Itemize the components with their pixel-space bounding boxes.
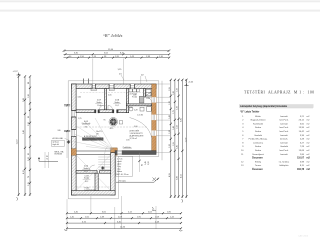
svg-text:11,10: 11,10 xyxy=(17,140,19,145)
top dimension chain line 2 xyxy=(64,53,171,56)
headroom dashed line upper xyxy=(77,126,148,128)
large headroom arc xyxy=(130,118,153,140)
lower section wall H2 xyxy=(76,171,97,174)
svg-text:BET. 40, 28 cm: BET. 40, 28 cm xyxy=(117,174,130,176)
left wall tan pillar xyxy=(71,149,76,156)
svg-text:76: 76 xyxy=(28,176,30,178)
svg-text:tégla fal: tégla fal xyxy=(53,143,60,146)
svg-text:10,2: 10,2 xyxy=(115,105,119,107)
svg-text:“B” Lakás Tetőtér: “B” Lakás Tetőtér xyxy=(240,111,259,114)
svg-text:95: 95 xyxy=(104,120,106,122)
svg-text:1,55: 1,55 xyxy=(169,87,171,91)
svg-text:Fürdő: Fürdő xyxy=(132,97,137,99)
room label 1.05 bath xyxy=(132,95,137,99)
svg-text:Szoba: Szoba xyxy=(255,131,262,133)
svg-text:14,42: 14,42 xyxy=(299,131,305,133)
svg-text:laminalt: laminalt xyxy=(280,115,288,118)
svg-text:lam.Park.: lam.Park. xyxy=(279,150,288,152)
svg-text:4,55: 4,55 xyxy=(169,173,171,177)
right chain line 4 xyxy=(181,79,184,203)
svg-text:1,15 85: 1,15 85 xyxy=(137,114,143,116)
svg-text:1,43: 1,43 xyxy=(169,115,171,119)
level marker cross at left wall xyxy=(67,140,70,143)
svg-text:82: 82 xyxy=(28,153,30,155)
svg-text:+3,05: +3,05 xyxy=(188,82,194,84)
svg-text:f.á. fürkész: f.á. fürkész xyxy=(279,161,289,163)
svg-text:lam.Park.: lam.Park. xyxy=(279,120,288,122)
svg-text:Fürdő+WC+Mosog.: Fürdő+WC+Mosog. xyxy=(249,139,268,141)
svg-text:lam.Park.: lam.Park. xyxy=(279,131,288,133)
svg-text:A 196 M2 BONT.: A 196 M2 BONT. xyxy=(84,135,98,138)
svg-text:Ø15: Ø15 xyxy=(110,128,113,130)
scan band second xyxy=(0,10,320,12)
bottom ext line 4 xyxy=(155,206,157,229)
window label D2 above wall xyxy=(141,75,147,83)
right chain line 5 (overall) xyxy=(185,79,187,198)
svg-text:ker.burk.: ker.burk. xyxy=(280,139,289,141)
svg-text:95: 95 xyxy=(142,164,144,166)
headroom dashed line lower room xyxy=(77,186,111,188)
shower corner fixture in bath xyxy=(145,92,151,96)
void cross diagonals lower-left room xyxy=(76,155,110,190)
svg-text:1,55: 1,55 xyxy=(173,142,175,146)
svg-text:Közlekedő: Közlekedő xyxy=(253,123,264,125)
window sill mark left 2 xyxy=(64,130,70,132)
room label 1.07 szoba (top-left room) xyxy=(95,100,103,108)
svg-text:Összesen: Összesen xyxy=(252,168,263,171)
table rows xyxy=(241,115,310,156)
window in left wall 1 xyxy=(72,111,77,118)
bath partition H3 xyxy=(126,104,151,106)
bottom exterior wall of lower-left section xyxy=(72,191,116,195)
svg-text:1,20: 1,20 xyxy=(177,88,179,92)
step wall right of lower section xyxy=(111,153,116,195)
left exterior wall xyxy=(72,84,77,195)
svg-text:3,62: 3,62 xyxy=(78,97,82,99)
svg-text:+2,97: +2,97 xyxy=(13,71,19,73)
extension line short at x140.8 xyxy=(140,76,142,84)
door swing H1 gap xyxy=(99,105,104,110)
lower section wall V4 xyxy=(95,173,98,190)
right chain line 1 xyxy=(169,79,172,198)
svg-text:1,90: 1,90 xyxy=(126,140,130,142)
door swing right wall 1 xyxy=(146,97,151,102)
window in top wall 2 xyxy=(109,84,114,89)
svg-text:2,30: 2,30 xyxy=(177,106,179,110)
window in top wall 1 xyxy=(92,84,95,89)
svg-text:Szoba: Szoba xyxy=(255,150,262,152)
eaves second line right xyxy=(161,81,163,160)
leader line 2% lejtes xyxy=(116,178,159,183)
level cross marker stair strip xyxy=(101,166,104,169)
radiator under window1 xyxy=(91,89,96,91)
svg-text:2,50: 2,50 xyxy=(28,122,30,126)
rotated dim text right of note box xyxy=(138,153,149,172)
svg-text:1,90: 1,90 xyxy=(28,94,30,98)
right exterior wall (brick, tan) xyxy=(152,84,156,153)
svg-text:2,45: 2,45 xyxy=(177,145,179,149)
right level marker xyxy=(184,82,194,87)
svg-text:11,9: 11,9 xyxy=(84,171,87,173)
right chain line 3 xyxy=(177,79,180,198)
svg-text:2,28: 2,28 xyxy=(134,110,138,112)
interior wall H1 right part xyxy=(118,110,126,113)
svg-text:Lomkamra: Lomkamra xyxy=(253,142,264,144)
svg-text:1,45: 1,45 xyxy=(145,161,147,165)
step corner tan block xyxy=(111,148,118,155)
radiator under window2 xyxy=(109,89,114,91)
svg-text:laminalt: laminalt xyxy=(280,134,288,137)
svg-text:laminalt: laminalt xyxy=(280,141,288,144)
svg-text:4,52: 4,52 xyxy=(181,174,183,178)
svg-text:1,75: 1,75 xyxy=(173,110,175,114)
svg-text:4,32: 4,32 xyxy=(23,170,25,174)
top dimension chain line 1 (overall) xyxy=(63,49,171,52)
svg-text:Szoba: Szoba xyxy=(255,146,262,148)
svg-text:2,86: 2,86 xyxy=(23,98,25,102)
svg-text:1.04: 1.04 xyxy=(146,98,150,100)
interior wall H1 middle part xyxy=(99,110,112,113)
table total row xyxy=(252,168,311,171)
stair fan treads xyxy=(74,118,114,150)
window in left wall 2 xyxy=(72,130,77,137)
extension line from top chain to wall (window axis 1) xyxy=(92,59,94,85)
table header band xyxy=(239,104,314,108)
svg-text:13,69: 13,69 xyxy=(299,150,305,152)
room label 1.06 xyxy=(113,100,121,108)
svg-text:12,4: 12,4 xyxy=(97,105,101,107)
svg-text:4,90: 4,90 xyxy=(129,107,133,109)
svg-text:1,20: 1,20 xyxy=(169,101,171,105)
svg-text:1,50: 1,50 xyxy=(177,125,179,129)
left level marker xyxy=(13,71,22,76)
svg-text:“B” Jelölés: “B” Jelölés xyxy=(103,33,123,38)
note text block right-middle xyxy=(130,129,145,140)
window in top wall 3 xyxy=(130,84,134,89)
svg-text:Személyzeti: Személyzeti xyxy=(252,153,264,156)
svg-text:37,16 m2: 37,16 m2 xyxy=(130,138,138,140)
stair flight treads lower strip xyxy=(98,155,110,170)
roof overhang outline xyxy=(68,81,159,199)
bottom chain line 1 xyxy=(66,212,182,215)
bath fixtures xyxy=(129,89,151,111)
svg-text:1,48: 1,48 xyxy=(173,126,175,130)
extra rows xyxy=(241,161,310,167)
svg-text:Terasz: Terasz xyxy=(255,165,261,167)
svg-text:95: 95 xyxy=(28,116,30,118)
svg-text:Lakóépület helyiség (alapterül: Lakóépület helyiség (alapterület) kimuta… xyxy=(240,105,288,108)
svg-text:8,6: 8,6 xyxy=(85,126,88,128)
middle bottom wall dark part xyxy=(115,151,156,155)
svg-text:födem: födem xyxy=(117,171,122,173)
svg-text:földépítés: földépítés xyxy=(279,164,288,167)
scan band top xyxy=(0,0,320,2)
chimney solid xyxy=(109,118,123,131)
svg-text:2,02: 2,02 xyxy=(148,161,150,165)
door swing V1 gap xyxy=(108,105,113,110)
svg-text:Összesen: Összesen xyxy=(252,157,263,160)
svg-text:10,2: 10,2 xyxy=(85,181,89,183)
svg-text:Gardrób: Gardrób xyxy=(280,146,289,148)
svg-text:6,85: 6,85 xyxy=(181,118,183,122)
svg-text:3,40: 3,40 xyxy=(23,130,25,134)
svg-text:laminalt: laminalt xyxy=(280,153,288,156)
demolished wall segment (dark) upper room xyxy=(83,138,104,141)
room label 1.01 xyxy=(82,121,90,129)
door gap in right wall 3 xyxy=(152,130,156,135)
svg-text:11,37: 11,37 xyxy=(186,138,188,143)
svg-text:Szoba: Szoba xyxy=(255,127,262,129)
room label 1.02 xyxy=(82,166,90,173)
svg-text:2,05: 2,05 xyxy=(108,95,112,97)
svg-text:1,10: 1,10 xyxy=(169,144,171,148)
headroom dashed top band xyxy=(80,92,150,94)
interior wall H1 left part xyxy=(76,110,95,113)
svg-text:2,25: 2,25 xyxy=(28,182,30,186)
svg-text:26,12: 26,12 xyxy=(299,120,305,122)
bottom chain line 3 xyxy=(66,221,182,224)
padlo marker bottom room xyxy=(85,187,96,191)
svg-text:5,60: 5,60 xyxy=(134,126,138,128)
small symbol below building xyxy=(153,207,157,211)
svg-text:A1 JELű FAL: A1 JELű FAL xyxy=(53,137,64,140)
stair walk line arrow xyxy=(105,146,109,172)
left chain line 2 xyxy=(23,75,26,196)
top dimension chain line 3 xyxy=(64,56,171,59)
svg-text:12,44: 12,44 xyxy=(120,227,126,229)
top exterior wall xyxy=(72,84,157,89)
svg-text:110,07: 110,07 xyxy=(297,158,305,160)
left chain line 3 xyxy=(28,75,31,196)
bottom ext line 2 xyxy=(90,196,92,214)
svg-text:BONTÁS: BONTÁS xyxy=(55,153,63,156)
door swing lower room xyxy=(89,165,95,171)
svg-text:1,25: 1,25 xyxy=(78,118,82,120)
svg-text:3,80: 3,80 xyxy=(177,176,179,180)
bottom chain line 2 xyxy=(66,217,182,220)
window sill mark left 1 xyxy=(64,104,70,106)
svg-text:Előtér: Előtér xyxy=(255,115,261,118)
svg-text:88: 88 xyxy=(28,82,30,84)
svg-text:Nappali+étkező: Nappali+étkező xyxy=(251,119,267,122)
svg-text:13,96: 13,96 xyxy=(299,127,305,129)
window label D1 above wall xyxy=(118,69,125,80)
svg-text:Lam.Parketta: Lam.Parketta xyxy=(85,188,96,191)
svg-text:Gardrób: Gardrób xyxy=(254,135,263,137)
svg-text:TETőTÉRI ALAPRAJZ M 1 : 100: TETőTÉRI ALAPRAJZ M 1 : 100 xyxy=(244,90,315,95)
svg-text:lam.Park.: lam.Park. xyxy=(279,127,288,129)
right chain line 2 xyxy=(173,79,176,198)
interior wall V1 xyxy=(105,89,107,110)
table subtotal row xyxy=(252,157,311,160)
extension line (window axis 2) xyxy=(122,59,124,85)
svg-text:2,10: 2,10 xyxy=(28,157,30,161)
svg-text:1,38: 1,38 xyxy=(169,130,171,134)
svg-text:laminalt: laminalt xyxy=(280,122,288,125)
left annotation block xyxy=(38,130,71,168)
svg-text:240: 240 xyxy=(58,130,61,132)
interior wall V2 xyxy=(126,89,128,113)
svg-text:Erkély: Erkély xyxy=(255,161,262,163)
padlo text above middle wall xyxy=(123,146,132,149)
small corner symbol right xyxy=(153,178,157,182)
note box below middle wall xyxy=(116,156,133,176)
bath labels xyxy=(128,93,149,116)
bottom ext line 1 xyxy=(66,199,68,229)
svg-text:12,44: 12,44 xyxy=(108,49,114,51)
svg-text:184,78: 184,78 xyxy=(297,168,305,171)
room label 1.03 xyxy=(83,175,91,182)
door gap in right wall 2 xyxy=(152,115,156,121)
svg-text:1.05 Fürdő: 1.05 Fürdő xyxy=(128,93,137,95)
right side extension leaders xyxy=(157,84,171,153)
middle bottom wall light part xyxy=(76,151,111,155)
bath partition V5 xyxy=(144,89,146,97)
door gap in right wall 1 xyxy=(152,97,156,102)
door jambs in H1 xyxy=(95,109,97,113)
svg-text:CAD 2004: CAD 2004 xyxy=(298,235,309,238)
svg-text:75: 75 xyxy=(46,158,48,160)
left chain line 1 xyxy=(17,75,20,200)
window tick marks on top wall xyxy=(84,79,89,84)
bottom ext line 3 xyxy=(121,196,123,229)
bottom chain line 4 (overall) xyxy=(64,227,182,231)
svg-text:1,80: 1,80 xyxy=(173,91,175,95)
